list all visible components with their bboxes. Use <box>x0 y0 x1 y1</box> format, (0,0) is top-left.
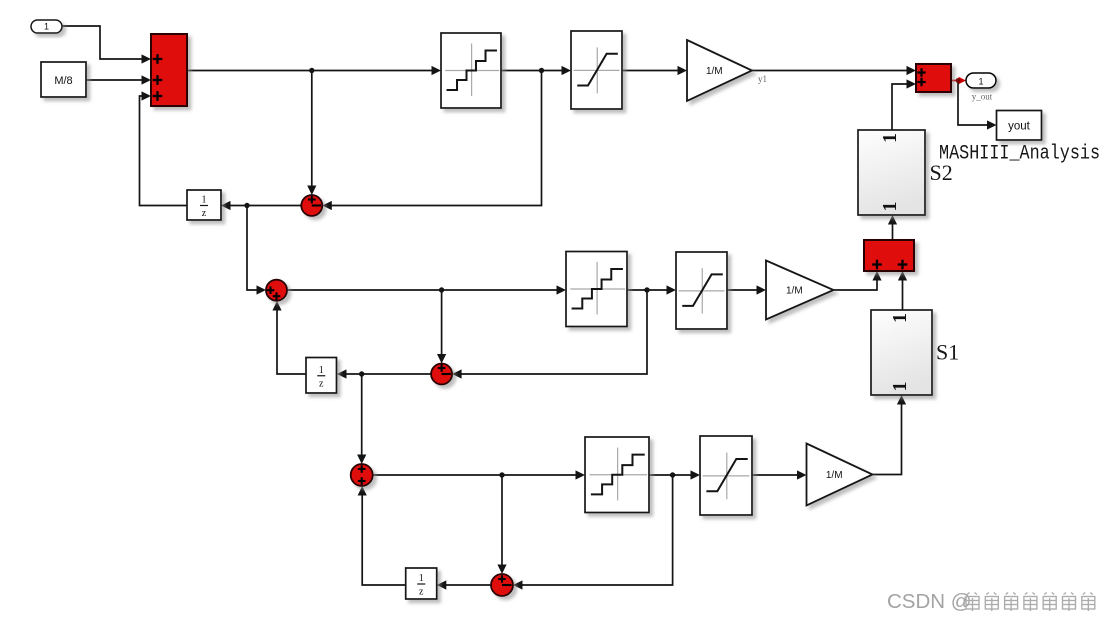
svg-text:yout: yout <box>1008 121 1031 133</box>
svg-text:1: 1 <box>978 77 983 87</box>
svg-text:1: 1 <box>889 313 911 323</box>
svg-text:1/M: 1/M <box>826 470 843 481</box>
svg-text:1: 1 <box>419 573 424 584</box>
svg-text:MASHIII_Analysis: MASHIII_Analysis <box>939 143 1100 166</box>
svg-text:1: 1 <box>879 202 901 212</box>
svg-text:1: 1 <box>44 22 49 32</box>
svg-text:1: 1 <box>889 382 911 392</box>
svg-text:z: z <box>202 208 207 219</box>
svg-text:CSDN @: CSDN @ <box>887 590 972 613</box>
svg-text:z: z <box>319 378 324 389</box>
svg-text:y_out: y_out <box>972 92 993 102</box>
svg-text:y1: y1 <box>758 74 767 84</box>
svg-text:1/M: 1/M <box>706 66 723 77</box>
svg-text:z: z <box>419 587 424 598</box>
svg-text:1: 1 <box>202 195 207 206</box>
svg-text:M/8: M/8 <box>54 75 72 87</box>
svg-text:S2: S2 <box>930 160 953 185</box>
svg-text:1: 1 <box>879 133 901 143</box>
svg-text:S1: S1 <box>936 340 959 365</box>
svg-text:1/M: 1/M <box>786 286 803 297</box>
svg-text:1: 1 <box>319 365 324 376</box>
